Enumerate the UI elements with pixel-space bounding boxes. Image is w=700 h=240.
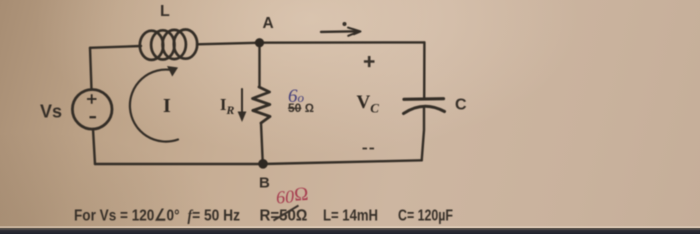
label - (cap) [363, 148, 375, 150]
top arrow line [321, 30, 356, 33]
wire bottom rail [95, 160, 422, 164]
svg-text:A: A [263, 15, 274, 32]
wire coil to node A [197, 43, 260, 45]
wire source bottom to bottom rail [93, 129, 95, 164]
svg-text:VC: VC [357, 92, 380, 116]
loop arrowhead [167, 66, 178, 77]
wire right vertical bottom [422, 108, 424, 160]
svg-text:R=50Ω: R=50Ω [260, 208, 308, 225]
svg-text:L: L [160, 3, 170, 20]
svg-text:IR: IR [220, 95, 234, 117]
node B junction dot [258, 159, 268, 169]
svg-text:I: I [163, 95, 171, 117]
inductor L1 coil [140, 29, 197, 59]
svg-text:For Vs = 120∠0°: For Vs = 120∠0° [74, 208, 180, 225]
wire resistor to node B [261, 123, 263, 164]
wire node A down to resistor [258, 43, 260, 87]
I_R arrow [241, 89, 243, 116]
slash through 50 [274, 206, 299, 221]
svg-text:B: B [259, 175, 270, 192]
resistor R zigzag [253, 87, 271, 123]
label + (cap) [364, 56, 375, 67]
svg-text:60Ω: 60Ω [275, 184, 309, 208]
wire top-left horizontal [90, 46, 141, 48]
svg-text:C: C [455, 97, 467, 114]
minus sign in source [90, 116, 97, 118]
node A junction dot [255, 38, 264, 47]
wire right vertical top [423, 42, 426, 97]
svg-text:C= 120µF: C= 120µF [398, 208, 453, 225]
voltage source Vs circle [72, 90, 112, 130]
svg-text:Vs: Vs [40, 102, 62, 122]
top arrowhead [348, 28, 361, 36]
ink speck [344, 23, 346, 25]
svg-text:f= 50 Hz: f= 50 Hz [188, 208, 241, 225]
svg-text:L= 14mH: L= 14mH [323, 208, 378, 225]
wire node A to top-right corner [260, 41, 425, 44]
capacitor C top plate [404, 97, 444, 101]
bottom photo edge strip [0, 226, 700, 228]
svg-text:6o: 6o [288, 86, 305, 107]
current loop arc I [130, 70, 178, 142]
wire left vertical (source top) [90, 48, 92, 90]
capacitor C curved bottom plate [404, 106, 445, 113]
plus sign in source [87, 94, 97, 117]
